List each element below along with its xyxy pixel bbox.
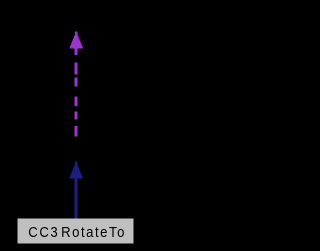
svg-text:CC3RotateTo: CC3RotateTo bbox=[28, 223, 126, 240]
